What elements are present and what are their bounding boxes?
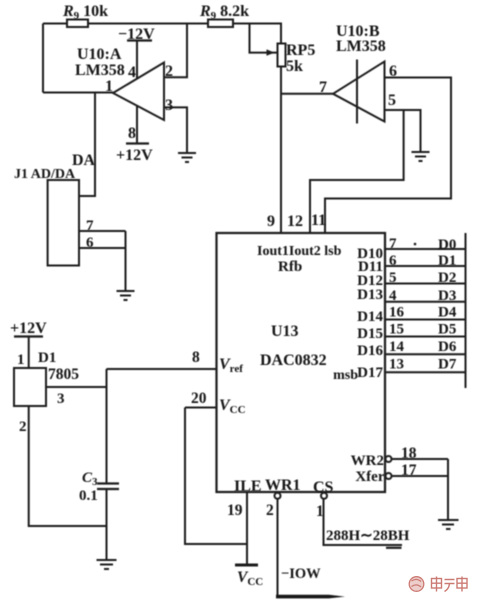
svg-text:D16: D16	[357, 343, 383, 359]
svg-text:U13: U13	[271, 323, 299, 340]
svg-text:DAC0832: DAC0832	[260, 352, 327, 369]
svg-text:Xfer: Xfer	[355, 469, 384, 485]
svg-text:WR1: WR1	[265, 477, 301, 494]
svg-text:20: 20	[191, 390, 207, 407]
svg-text:11: 11	[311, 212, 326, 229]
svg-text:19: 19	[227, 502, 243, 519]
svg-text:13: 13	[389, 357, 404, 373]
svg-text:D14: D14	[357, 309, 383, 325]
svg-text:6: 6	[86, 235, 94, 251]
svg-text:U10:A: U10:A	[77, 46, 122, 63]
svg-text:14: 14	[389, 339, 405, 355]
svg-text:16: 16	[389, 305, 405, 321]
svg-text:0.1: 0.1	[79, 488, 98, 504]
svg-text:1: 1	[105, 78, 113, 95]
svg-text:2: 2	[266, 502, 274, 519]
svg-text:4: 4	[389, 288, 397, 304]
svg-text:D1: D1	[438, 253, 456, 269]
svg-text:D2: D2	[438, 270, 456, 286]
svg-text:RP5: RP5	[286, 42, 315, 59]
svg-text:9: 9	[267, 213, 275, 230]
svg-text:7: 7	[86, 218, 94, 234]
svg-text:Iout1Iout2 lsb: Iout1Iout2 lsb	[257, 244, 342, 259]
svg-text:msb: msb	[333, 368, 358, 383]
svg-text:D3: D3	[438, 288, 456, 304]
svg-text:8: 8	[128, 125, 136, 142]
svg-text:Rfb: Rfb	[278, 259, 302, 275]
svg-text:4: 4	[128, 64, 136, 81]
svg-text:6: 6	[389, 253, 397, 269]
svg-text:18: 18	[401, 445, 417, 462]
svg-text:2: 2	[19, 419, 27, 435]
svg-text:LM358: LM358	[75, 62, 125, 79]
svg-text:1: 1	[17, 352, 25, 368]
svg-text:7805: 7805	[48, 366, 79, 383]
svg-text:12: 12	[287, 213, 303, 230]
svg-text:WR2: WR2	[351, 453, 384, 469]
svg-text:D15: D15	[357, 326, 383, 342]
svg-text:7: 7	[319, 79, 327, 96]
svg-text:LM358: LM358	[336, 38, 386, 55]
svg-text:6: 6	[389, 63, 397, 80]
svg-text:5: 5	[389, 270, 397, 286]
svg-text:R9 10k: R9 10k	[62, 3, 108, 22]
svg-text:−12V: −12V	[118, 26, 155, 43]
svg-text:D17: D17	[357, 365, 383, 381]
svg-text:ILE: ILE	[234, 478, 262, 495]
svg-text:288H∼28BH: 288H∼28BH	[326, 528, 410, 544]
svg-text:R9 8.2k: R9 8.2k	[199, 3, 249, 22]
svg-text:3: 3	[165, 97, 173, 114]
svg-text:J1 AD/DA: J1 AD/DA	[14, 167, 76, 182]
svg-text:D4: D4	[438, 305, 457, 321]
svg-text:2: 2	[165, 63, 173, 80]
svg-text:D7: D7	[438, 357, 457, 373]
svg-text:+12V: +12V	[116, 147, 153, 164]
svg-text:5k: 5k	[286, 58, 303, 75]
svg-text:D0: D0	[438, 237, 456, 253]
svg-text:−IOW: −IOW	[281, 566, 321, 582]
svg-text:+12V: +12V	[10, 320, 47, 337]
svg-text:D1: D1	[38, 350, 56, 366]
svg-text:D5: D5	[438, 322, 456, 338]
svg-text:7: 7	[389, 236, 397, 252]
svg-text:D6: D6	[438, 339, 457, 355]
svg-text:CS: CS	[313, 479, 334, 496]
svg-text:8: 8	[192, 349, 200, 366]
svg-text:17: 17	[401, 462, 417, 479]
svg-text:DA: DA	[72, 152, 96, 169]
svg-text:3: 3	[57, 391, 65, 407]
svg-text:1: 1	[316, 503, 324, 520]
svg-text:D13: D13	[357, 287, 383, 303]
svg-text:15: 15	[389, 322, 404, 338]
svg-text:5: 5	[388, 92, 396, 109]
